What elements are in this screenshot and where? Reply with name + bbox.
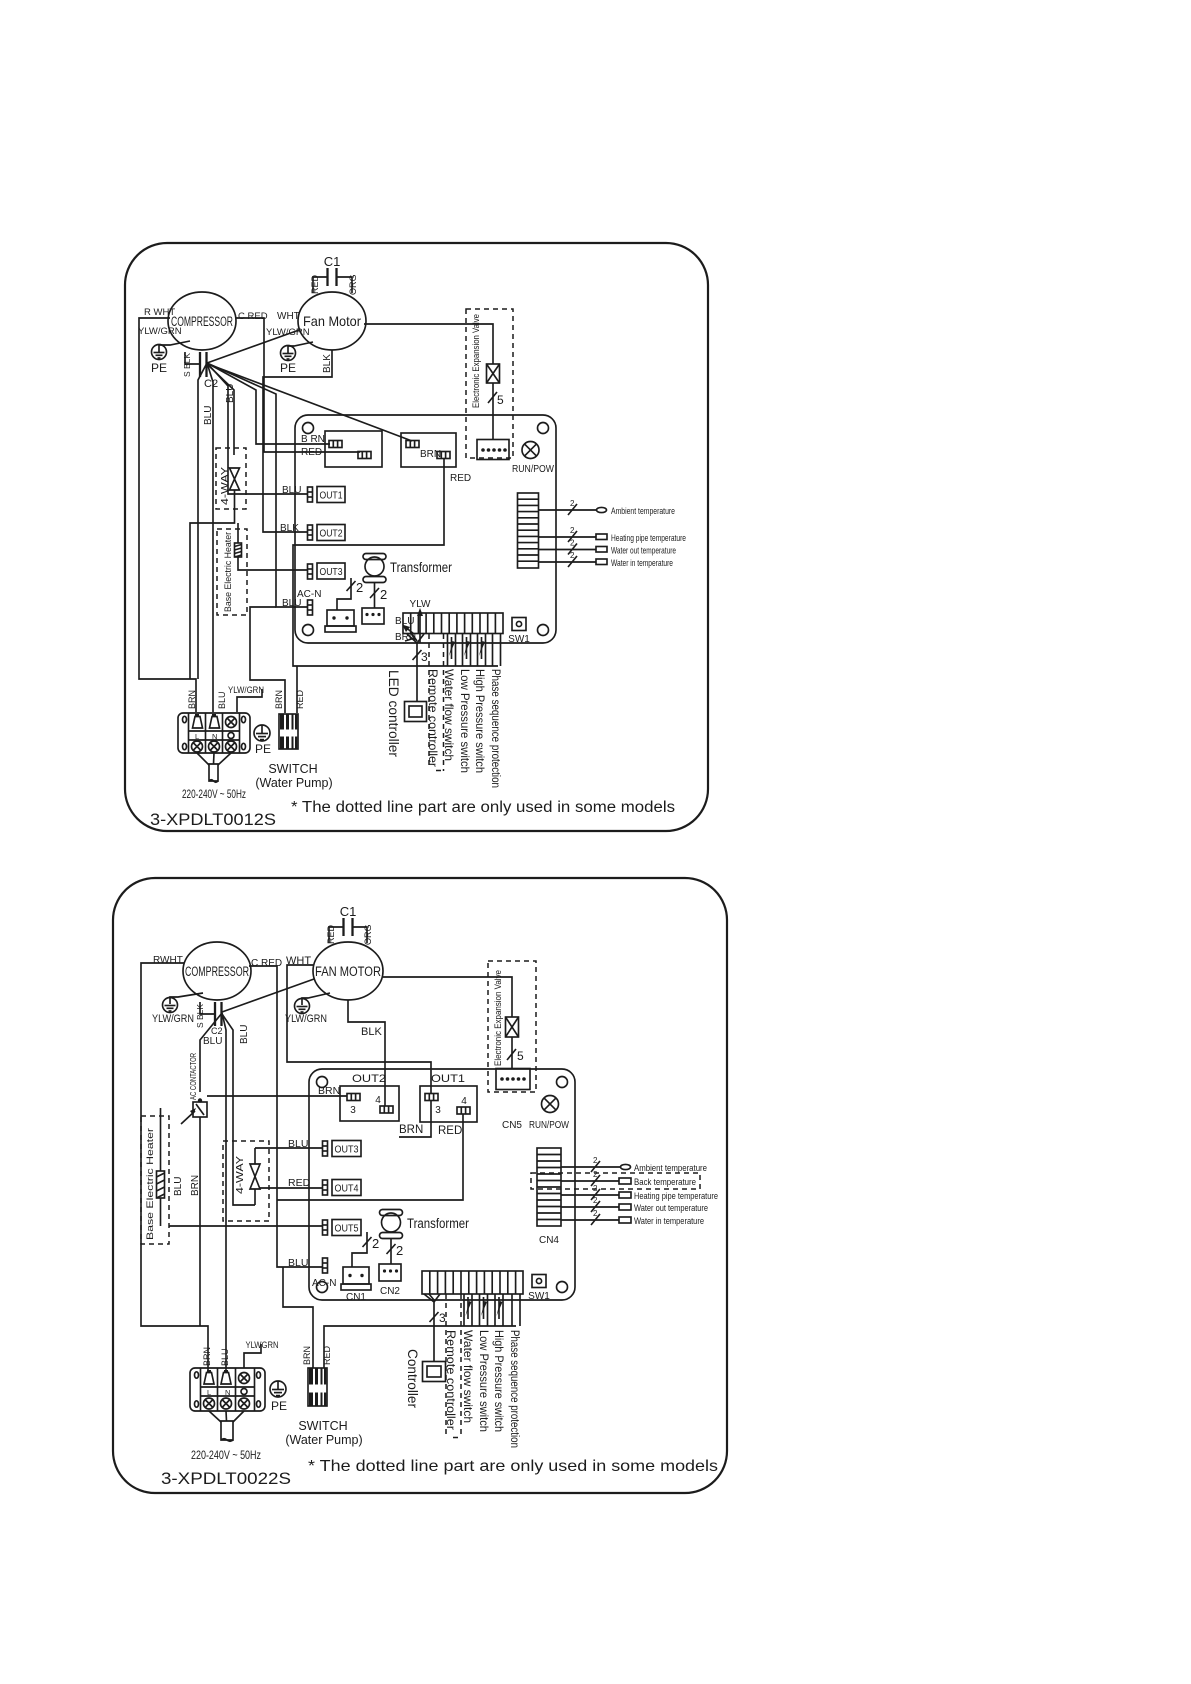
- relay OUT4: [332, 1180, 361, 1196]
- transformer T1: [363, 554, 452, 583]
- svg-text:BLU: BLU: [395, 616, 414, 627]
- capacitor C1: [310, 254, 358, 295]
- wire 4-way valve bottom: [190, 490, 235, 679]
- relay OUT1: [317, 487, 345, 503]
- svg-text:SW1: SW1: [508, 634, 530, 645]
- svg-text:BLU: BLU: [173, 1177, 184, 1196]
- wire water out temperature sensor bottom: [561, 1196, 708, 1214]
- lamp RUN/POW bottom: [529, 1096, 569, 1132]
- svg-text:BRN: BRN: [190, 1175, 201, 1196]
- svg-text:BLU: BLU: [220, 1348, 230, 1366]
- relay OUT3: [332, 1141, 361, 1157]
- svg-text:RWHT: RWHT: [153, 955, 183, 966]
- svg-text:BLK: BLK: [361, 1026, 382, 1038]
- phase sequence protection column: [493, 634, 501, 666]
- svg-text:AC CONTACTOR: AC CONTACTOR: [188, 1053, 198, 1100]
- svg-text:OUT1: OUT1: [431, 1073, 465, 1085]
- svg-text:2: 2: [593, 1170, 598, 1179]
- wire heating pipe temperature sensor: [539, 526, 687, 544]
- wire OUT1 pin3 BRN: [399, 1100, 431, 1137]
- svg-text:3: 3: [435, 1105, 441, 1116]
- connector CN5 5-pin: [496, 1069, 530, 1132]
- svg-text:B RN: B RN: [301, 434, 325, 445]
- svg-text:Remote controller: Remote controller: [426, 669, 440, 767]
- svg-text:Water out temperature: Water out temperature: [634, 1203, 708, 1214]
- svg-text:2: 2: [593, 1184, 598, 1193]
- wire BLU C2 crossing to 4-way: [222, 1014, 255, 1205]
- wire C2 to contactor: [200, 1013, 222, 1092]
- svg-text:Ambient temperature: Ambient temperature: [611, 506, 675, 517]
- wire transformer secondary to CN2: [374, 583, 376, 608]
- connector AC-N pins bottom: [323, 1258, 328, 1273]
- ground PE terminal bottom: [270, 1381, 287, 1413]
- connector OUT1 pins: [308, 487, 313, 502]
- svg-text:BLK: BLK: [280, 523, 299, 534]
- wire switch RED riser: [296, 666, 298, 713]
- wire water in temperature sensor bottom: [561, 1209, 704, 1227]
- svg-text:BRN: BRN: [302, 1346, 312, 1365]
- LED controller box: [405, 702, 427, 722]
- remote controller dashed lines bottom: [446, 1294, 461, 1438]
- high pressure switch column: [478, 634, 486, 666]
- electronic expansion valve dashed box bottom: [488, 961, 536, 1092]
- slash 2 CN1: [363, 1236, 380, 1251]
- slash 2 CN2: [387, 1243, 404, 1258]
- wire relay2 RED down-left: [293, 459, 498, 666]
- svg-text:YLW/GRN: YLW/GRN: [228, 685, 264, 696]
- svg-text:2: 2: [593, 1156, 598, 1165]
- svg-text:BRN: BRN: [399, 1124, 423, 1136]
- wire water out temperature sensor: [539, 539, 677, 557]
- water flow switch column: [448, 634, 456, 666]
- svg-text:BLU: BLU: [239, 1025, 250, 1044]
- switch SW1 bottom: [528, 1275, 550, 1303]
- wire comb to LED controller: [407, 634, 428, 701]
- svg-text:BLU: BLU: [282, 598, 301, 609]
- wire BLK fan to OUT2 pin4: [348, 1000, 385, 1106]
- wire back temperature sensor: [561, 1170, 696, 1188]
- svg-text:S BLK: S BLK: [182, 353, 192, 377]
- wire switch BRN riser: [250, 607, 285, 713]
- remote controller dashed lines: [429, 634, 444, 771]
- svg-text:220-240V ~ 50Hz: 220-240V ~ 50Hz: [191, 1448, 261, 1462]
- wire BLK fan to OUT2: [263, 350, 332, 532]
- svg-text:YLW/GRN: YLW/GRN: [266, 327, 310, 338]
- svg-text:N: N: [225, 1388, 230, 1397]
- svg-text:RUN/POW: RUN/POW: [529, 1120, 569, 1131]
- svg-text:2: 2: [570, 526, 575, 535]
- svg-text:ORG: ORG: [348, 274, 358, 295]
- svg-text:R WHT: R WHT: [144, 307, 175, 318]
- svg-text:BRN: BRN: [187, 690, 197, 709]
- svg-text:CN5: CN5: [502, 1120, 522, 1131]
- svg-text:YLWGRN: YLWGRN: [246, 1340, 279, 1351]
- screw hole top-left: [303, 423, 314, 434]
- svg-text:Transformer: Transformer: [407, 1216, 469, 1231]
- terminal block X2: [190, 1368, 265, 1411]
- wire YLWGRN bend bottom: [244, 1344, 261, 1368]
- connector CN1: [325, 610, 356, 632]
- svg-text:2: 2: [396, 1243, 403, 1258]
- svg-text:OUT2: OUT2: [320, 529, 343, 540]
- svg-text:5: 5: [517, 1049, 524, 1063]
- svg-text:2: 2: [593, 1209, 598, 1218]
- wire C2 to 4-way valve: [207, 364, 234, 455]
- svg-text:OUT3: OUT3: [320, 567, 343, 578]
- svg-text:PE: PE: [255, 742, 271, 756]
- slash 2 CN1 riser: [347, 580, 364, 595]
- label BLU arrow comb: [395, 616, 414, 634]
- wire heater bottom lead: [160, 1198, 162, 1226]
- svg-text:N: N: [212, 732, 217, 741]
- sensor connector comb CN: [518, 493, 539, 568]
- capacitor C2 bottom: [195, 1002, 223, 1036]
- svg-text:Electronic Expansion Valve: Electronic Expansion Valve: [471, 314, 481, 408]
- svg-text:Heating pipe temperature: Heating pipe temperature: [611, 533, 686, 544]
- wire C RED down: [249, 966, 323, 1267]
- wire ambient temperature sensor: [539, 499, 676, 517]
- svg-text:Transformer: Transformer: [390, 560, 452, 575]
- svg-text:BRN: BRN: [202, 1347, 212, 1366]
- wire heater top lead: [237, 523, 239, 543]
- high pressure switch column bottom: [495, 1294, 503, 1326]
- controller box: [423, 1362, 446, 1382]
- svg-text:Water out temperature: Water out temperature: [611, 546, 676, 557]
- svg-text:Base Electric Heater: Base Electric Heater: [145, 1128, 156, 1240]
- label YLW arrow: [410, 599, 431, 643]
- screw hole bottom-right: [538, 625, 549, 636]
- svg-text:3: 3: [350, 1105, 356, 1116]
- svg-text:2: 2: [570, 499, 575, 508]
- wire EEV to CN5: [492, 383, 494, 439]
- relay OUT1 block: [420, 1073, 477, 1122]
- slash 2 transformer secondary: [370, 587, 387, 602]
- 4-way valve symbol bottom: [250, 1148, 260, 1205]
- svg-text:YLW/GRN: YLW/GRN: [285, 1013, 327, 1025]
- screw hole bottom-right: [557, 1282, 568, 1293]
- svg-text:YLW/GRN: YLW/GRN: [152, 1013, 194, 1025]
- svg-text:AC-N: AC-N: [312, 1278, 336, 1289]
- 4-way valve dashed box: [216, 448, 246, 509]
- svg-text:YLW: YLW: [410, 599, 431, 610]
- relay OUT5: [332, 1220, 361, 1236]
- wire comb to controller: [424, 1294, 446, 1361]
- transformer T2: [380, 1210, 470, 1239]
- electronic expansion valve dashed box: [466, 309, 513, 458]
- svg-text:Controller: Controller: [405, 1349, 420, 1408]
- wire BLU C2 to OUT1: [207, 363, 308, 494]
- svg-text:Phase sequence protection: Phase sequence protection: [489, 669, 501, 788]
- svg-text:3-XPDLT0022S: 3-XPDLT0022S: [161, 1469, 291, 1488]
- svg-text:Back temperature: Back temperature: [634, 1177, 696, 1188]
- switch water pump SW: [255, 714, 332, 790]
- connector CN5 5-pin: [477, 440, 509, 460]
- svg-text:S BLK: S BLK: [195, 1004, 205, 1028]
- screw hole top-right: [538, 423, 549, 434]
- svg-text:Water in temperature: Water in temperature: [634, 1216, 704, 1227]
- svg-text:ORG: ORG: [363, 924, 373, 945]
- wire C2 to relay2: [208, 364, 412, 441]
- wire switch RED riser bottom: [324, 1326, 516, 1368]
- border frame bottom diagram: [113, 878, 727, 1493]
- border frame top diagram: [125, 243, 708, 831]
- svg-text:2: 2: [593, 1196, 598, 1205]
- svg-text:Fan Motor: Fan Motor: [303, 313, 361, 329]
- power cable bottom: [209, 1411, 244, 1441]
- wire WHT C2 to fan: [207, 330, 299, 363]
- svg-text:C2: C2: [204, 378, 218, 390]
- wire ambient temperature sensor bottom: [561, 1156, 707, 1174]
- svg-text:WHT: WHT: [277, 311, 300, 322]
- connector OUT3 pins: [323, 1141, 328, 1156]
- svg-text:Base Electric Heater: Base Electric Heater: [223, 532, 234, 612]
- heater resistor R2: [157, 1171, 165, 1198]
- svg-text:C1: C1: [340, 904, 357, 919]
- wire R WHT to terminal: [139, 318, 196, 712]
- svg-text:4: 4: [461, 1096, 467, 1107]
- water flow switch column bottom: [464, 1294, 472, 1326]
- low pressure switch column: [463, 634, 471, 666]
- PCB main board bottom: [309, 1069, 575, 1300]
- wire BLU C2 to terminal: [222, 1013, 226, 1372]
- svg-text:Electronic Expansion Valve: Electronic Expansion Valve: [493, 970, 503, 1066]
- back temperature dashed box: [531, 1173, 700, 1189]
- wire BRN to relay1: [207, 363, 330, 444]
- svg-text:CN4: CN4: [539, 1235, 559, 1246]
- svg-text:PE: PE: [271, 1399, 287, 1413]
- wire 4way to OUT4: [259, 1187, 322, 1189]
- wire fan right to EEV: [383, 977, 512, 1017]
- wire EEV to CN5 bottom: [511, 1037, 513, 1068]
- svg-text:Water in temperature: Water in temperature: [611, 558, 673, 569]
- svg-text:OUT1: OUT1: [320, 491, 343, 502]
- svg-text:RUN/POW: RUN/POW: [512, 464, 554, 475]
- compressor M3: [183, 942, 251, 1000]
- svg-text:4-WAY: 4-WAY: [235, 1156, 246, 1194]
- svg-text:RED: RED: [301, 447, 322, 458]
- wire heating pipe temperature sensor bottom: [561, 1184, 718, 1202]
- svg-text:3: 3: [421, 650, 428, 664]
- screw hole bottom-left: [303, 625, 314, 636]
- svg-text:Phase sequence protection: Phase sequence protection: [508, 1330, 520, 1448]
- svg-text:SW1: SW1: [528, 1291, 550, 1302]
- compressor M1: [168, 292, 236, 350]
- wire C2 to fan WHT: [222, 979, 314, 1012]
- PCB main board top: [295, 415, 556, 643]
- svg-text:RED: RED: [450, 473, 471, 484]
- svg-text:SWITCH: SWITCH: [268, 762, 317, 776]
- svg-text:3: 3: [439, 1311, 446, 1325]
- svg-text:3-XPDLT0012S: 3-XPDLT0012S: [150, 810, 276, 829]
- svg-text:4: 4: [375, 1095, 381, 1106]
- wire BRN contactor to OUT2: [207, 1095, 347, 1097]
- screw hole top-right: [557, 1077, 568, 1088]
- wire CN1 riser: [352, 1232, 367, 1267]
- svg-text:L: L: [195, 732, 199, 741]
- svg-text:RED: RED: [322, 1345, 332, 1365]
- svg-text:2: 2: [356, 580, 363, 595]
- svg-text:* The dotted line part are onl: * The dotted line part are only used in …: [291, 799, 675, 816]
- svg-text:Water flow switch: Water flow switch: [442, 669, 456, 761]
- svg-text:BLU: BLU: [288, 1257, 308, 1269]
- terminal strip comb bottom: [403, 613, 503, 634]
- ground PE compressor: [151, 341, 190, 375]
- relay OUT2 block: [340, 1073, 399, 1121]
- svg-text:SWITCH: SWITCH: [298, 1419, 347, 1433]
- svg-text:4-WAY: 4-WAY: [220, 467, 231, 505]
- connector CN2: [362, 608, 384, 624]
- 4-way valve dashed box bottom: [223, 1141, 269, 1221]
- lamp RUN/POW: [512, 442, 554, 476]
- svg-text:Low Pressure switch: Low Pressure switch: [458, 669, 472, 773]
- screw hole top-left: [317, 1077, 328, 1088]
- slash 5 EEV bottom: [507, 1049, 524, 1063]
- relay block K2: [401, 433, 456, 467]
- svg-text:220-240V ~ 50Hz: 220-240V ~ 50Hz: [182, 787, 246, 801]
- svg-text:BLU: BLU: [282, 485, 301, 496]
- wire YLW/GRN bend: [237, 689, 262, 712]
- ground PE fan motor bottom: [285, 993, 330, 1025]
- connector OUT5 pins: [323, 1220, 328, 1235]
- svg-text:2: 2: [570, 539, 575, 548]
- low pressure switch column bottom: [480, 1294, 488, 1326]
- phase sequence protection column bottom: [512, 1294, 520, 1326]
- svg-text:C2: C2: [211, 1026, 223, 1036]
- relay block K1: [325, 431, 382, 467]
- ground PE compressor bottom: [152, 993, 203, 1025]
- svg-text:RED: RED: [438, 1125, 462, 1137]
- ground PE fan motor: [280, 342, 313, 375]
- svg-text:FAN MOTOR: FAN MOTOR: [315, 964, 381, 979]
- connector CN2: [379, 1264, 401, 1297]
- connector CN1: [341, 1267, 371, 1303]
- wire heater to OUT3: [238, 557, 308, 570]
- connector OUT4 pins: [323, 1180, 328, 1195]
- svg-text:2: 2: [380, 587, 387, 602]
- heater resistor R1: [235, 543, 242, 557]
- wire contactor down BRN: [199, 1117, 201, 1326]
- svg-text:2: 2: [570, 551, 575, 560]
- svg-text:CN1: CN1: [346, 1292, 366, 1303]
- AC contactor KM1: [181, 1053, 207, 1124]
- svg-text:CN2: CN2: [380, 1286, 400, 1297]
- relay OUT2: [317, 525, 345, 541]
- svg-text:BRN: BRN: [274, 690, 284, 709]
- fan motor M4: [313, 942, 383, 1000]
- wire switch BRN riser bottom: [283, 1267, 313, 1368]
- 4-way valve symbol: [230, 468, 240, 490]
- terminal strip comb bottom PCB: [422, 1271, 523, 1294]
- wire C2 branch down: [198, 363, 207, 679]
- svg-text:RED: RED: [326, 924, 336, 944]
- wire BLU C2 to terminal: [207, 363, 213, 712]
- wire 4way to OUT3: [255, 1147, 322, 1149]
- base electric heater dashed box: [217, 529, 247, 615]
- connector OUT2 pins: [308, 525, 313, 540]
- wire BLU AC-N: [207, 363, 308, 607]
- svg-text:C1: C1: [324, 254, 341, 269]
- svg-text:BLU: BLU: [217, 691, 227, 709]
- svg-text:OUT4: OUT4: [335, 1184, 359, 1195]
- terminal block X1: [178, 713, 250, 753]
- connector AC-N pins: [308, 600, 313, 615]
- slash 5 EEV: [488, 392, 504, 407]
- svg-text:* The dotted line part are onl: * The dotted line part are only used in …: [308, 1458, 718, 1475]
- wire transformer to CN2: [390, 1239, 392, 1264]
- svg-text:Heating pipe temperature: Heating pipe temperature: [634, 1191, 718, 1202]
- switch water pump bottom: [285, 1368, 362, 1447]
- svg-text:PE: PE: [280, 361, 296, 375]
- wire heater to OUT5: [169, 1225, 322, 1227]
- ground PE terminal: [254, 725, 271, 756]
- capacitor C1 bottom: [326, 904, 373, 945]
- svg-text:Remote controller: Remote controller: [444, 1330, 458, 1430]
- svg-text:RED: RED: [310, 274, 320, 294]
- electronic expansion valve symbol bottom: [506, 1017, 519, 1037]
- svg-text:High Pressure switch: High Pressure switch: [492, 1330, 506, 1432]
- svg-text:L: L: [207, 1388, 211, 1397]
- svg-text:(Water Pump): (Water Pump): [255, 776, 332, 790]
- svg-text:High Pressure switch: High Pressure switch: [473, 669, 487, 773]
- svg-text:COMPRESSOR: COMPRESSOR: [185, 964, 249, 979]
- svg-text:5: 5: [497, 393, 504, 407]
- svg-text:YLW/GRN: YLW/GRN: [138, 326, 182, 337]
- base electric heater dashed box bottom: [141, 1116, 169, 1244]
- wire WHT fan to OUT1: [287, 965, 431, 1094]
- wire CN1 riser: [337, 578, 351, 610]
- screw hole bottom-left: [317, 1282, 328, 1293]
- wire C RED compressor to relay1: [236, 318, 360, 452]
- sensor connector CN4: [537, 1148, 561, 1246]
- wire heater top lead bottom diag: [160, 1108, 162, 1171]
- svg-text:RED: RED: [295, 689, 305, 709]
- electronic expansion valve symbol: [487, 364, 500, 383]
- svg-text:BLU: BLU: [203, 1036, 222, 1047]
- svg-text:Low Pressure switch: Low Pressure switch: [477, 1330, 491, 1432]
- svg-text:OUT3: OUT3: [335, 1145, 359, 1156]
- connector OUT3 pins: [308, 564, 313, 579]
- relay OUT3: [317, 563, 345, 579]
- power cable: [197, 753, 231, 782]
- svg-text:PE: PE: [151, 361, 167, 375]
- svg-text:Water flow switch: Water flow switch: [461, 1330, 475, 1423]
- wire RWHT to terminal: [141, 963, 208, 1372]
- wire fan to EEV: [364, 324, 493, 364]
- fan motor M2: [298, 292, 366, 350]
- label BRN arrow comb: [395, 632, 416, 643]
- wire OUT1 pin4 RED down: [277, 1114, 463, 1200]
- svg-text:LED controller: LED controller: [386, 670, 401, 758]
- svg-text:BLU: BLU: [203, 406, 214, 425]
- switch SW1: [508, 618, 530, 646]
- svg-text:2: 2: [372, 1236, 379, 1251]
- svg-text:OUT5: OUT5: [335, 1224, 359, 1235]
- svg-text:OUT2: OUT2: [352, 1073, 386, 1085]
- wire water in temperature sensor: [539, 551, 674, 569]
- svg-text:(Water Pump): (Water Pump): [285, 1433, 362, 1447]
- capacitor C2: [182, 352, 218, 390]
